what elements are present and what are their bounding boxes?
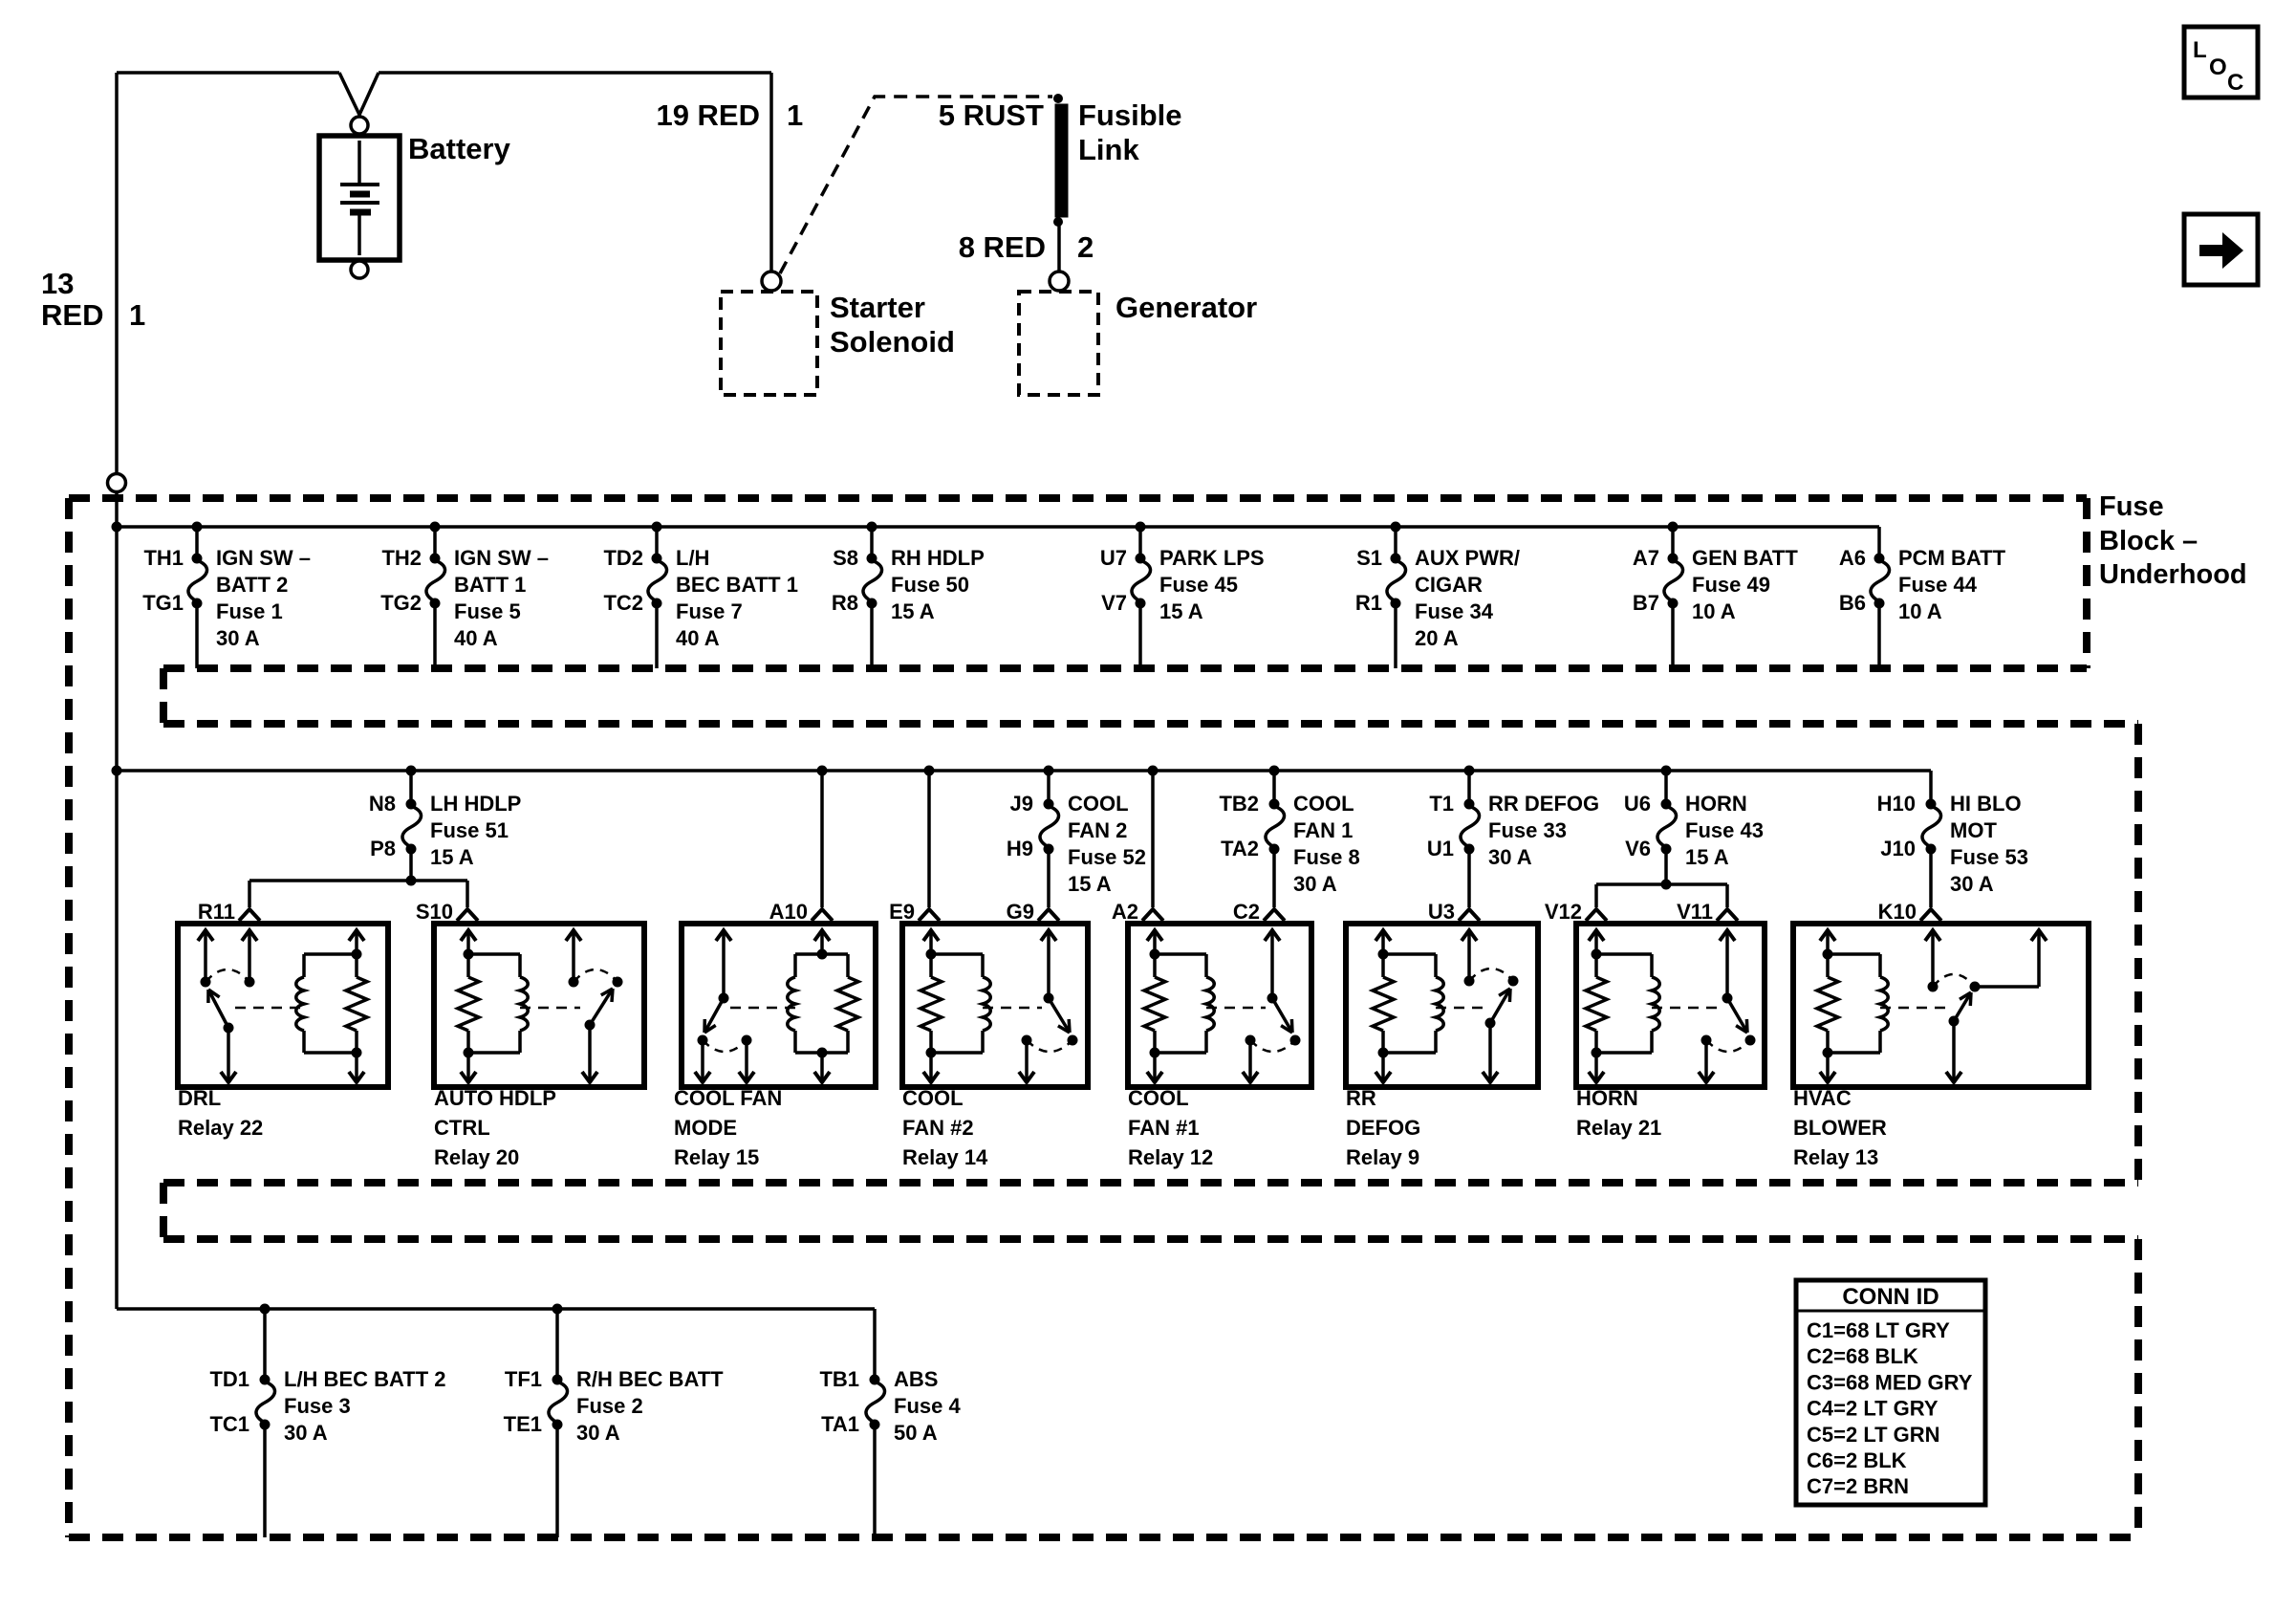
- svg-text:Fuse 33: Fuse 33: [1488, 818, 1567, 842]
- svg-text:S8: S8: [833, 546, 858, 570]
- svg-text:30 A: 30 A: [284, 1421, 328, 1445]
- svg-text:O: O: [2209, 54, 2227, 80]
- svg-text:13: 13: [41, 267, 74, 300]
- svg-text:BATT 2: BATT 2: [216, 573, 288, 597]
- svg-text:Fuse 49: Fuse 49: [1692, 573, 1770, 597]
- svg-text:Relay 14: Relay 14: [902, 1145, 988, 1169]
- svg-text:30 A: 30 A: [216, 626, 260, 650]
- svg-text:Relay 13: Relay 13: [1793, 1145, 1878, 1169]
- svg-text:TC1: TC1: [209, 1412, 249, 1436]
- svg-text:BATT 1: BATT 1: [454, 573, 526, 597]
- svg-text:R8: R8: [832, 591, 858, 615]
- svg-text:H10: H10: [1877, 792, 1916, 816]
- svg-text:R1: R1: [1355, 591, 1382, 615]
- svg-text:A10: A10: [769, 900, 808, 924]
- svg-text:BEC BATT 1: BEC BATT 1: [676, 573, 798, 597]
- svg-text:COOL: COOL: [1128, 1086, 1189, 1110]
- svg-text:40 A: 40 A: [676, 626, 720, 650]
- svg-text:V12: V12: [1545, 900, 1582, 924]
- svg-text:8 RED: 8 RED: [959, 230, 1046, 264]
- svg-text:Fuse 7: Fuse 7: [676, 599, 743, 623]
- svg-text:Relay 9: Relay 9: [1346, 1145, 1419, 1169]
- svg-text:V7: V7: [1101, 591, 1127, 615]
- svg-text:30 A: 30 A: [1488, 845, 1532, 869]
- svg-text:PARK LPS: PARK LPS: [1159, 546, 1265, 570]
- svg-text:1: 1: [129, 298, 145, 332]
- svg-text:15 A: 15 A: [1068, 872, 1112, 896]
- svg-text:J10: J10: [1880, 837, 1916, 860]
- svg-text:S1: S1: [1356, 546, 1382, 570]
- svg-text:C6=2 BLK: C6=2 BLK: [1807, 1448, 1907, 1472]
- svg-text:Fuse 8: Fuse 8: [1293, 845, 1360, 869]
- svg-text:Solenoid: Solenoid: [830, 325, 955, 359]
- svg-text:U3: U3: [1428, 900, 1455, 924]
- svg-text:Battery: Battery: [408, 132, 511, 165]
- svg-text:HORN: HORN: [1576, 1086, 1638, 1110]
- svg-text:40 A: 40 A: [454, 626, 498, 650]
- svg-text:Fuse 4: Fuse 4: [894, 1394, 961, 1418]
- svg-text:T1: T1: [1429, 792, 1454, 816]
- svg-text:Relay 15: Relay 15: [674, 1145, 759, 1169]
- svg-text:FAN 2: FAN 2: [1068, 818, 1127, 842]
- svg-text:ABS: ABS: [894, 1367, 938, 1391]
- svg-text:GEN BATT: GEN BATT: [1692, 546, 1798, 570]
- svg-text:A6: A6: [1839, 546, 1866, 570]
- svg-text:AUTO HDLP: AUTO HDLP: [434, 1086, 556, 1110]
- svg-text:C4=2 LT GRY: C4=2 LT GRY: [1807, 1397, 1939, 1421]
- svg-text:50 A: 50 A: [894, 1421, 938, 1445]
- svg-text:C2=68 BLK: C2=68 BLK: [1807, 1344, 1918, 1368]
- svg-text:Fuse 2: Fuse 2: [576, 1394, 643, 1418]
- svg-text:TG2: TG2: [380, 591, 422, 615]
- svg-text:Relay 21: Relay 21: [1576, 1116, 1661, 1140]
- svg-text:CIGAR: CIGAR: [1415, 573, 1483, 597]
- svg-text:C2: C2: [1233, 900, 1260, 924]
- svg-text:J9: J9: [1010, 792, 1033, 816]
- svg-text:FAN 1: FAN 1: [1293, 818, 1353, 842]
- svg-text:Fuse: Fuse: [2099, 491, 2164, 522]
- svg-text:TB2: TB2: [1219, 792, 1259, 816]
- svg-text:CTRL: CTRL: [434, 1116, 490, 1140]
- svg-text:30 A: 30 A: [1293, 872, 1337, 896]
- svg-text:V6: V6: [1625, 837, 1651, 860]
- svg-text:FAN #1: FAN #1: [1128, 1116, 1200, 1140]
- svg-text:C3=68 MED GRY: C3=68 MED GRY: [1807, 1370, 1973, 1394]
- svg-text:B6: B6: [1839, 591, 1866, 615]
- svg-text:B7: B7: [1633, 591, 1659, 615]
- svg-text:RH HDLP: RH HDLP: [891, 546, 985, 570]
- svg-text:Underhood: Underhood: [2099, 559, 2247, 590]
- svg-text:Relay 20: Relay 20: [434, 1145, 519, 1169]
- svg-text:A7: A7: [1633, 546, 1659, 570]
- svg-text:Fuse 44: Fuse 44: [1898, 573, 1978, 597]
- svg-text:C: C: [2227, 70, 2243, 96]
- svg-text:5 RUST: 5 RUST: [939, 98, 1044, 132]
- svg-text:BLOWER: BLOWER: [1793, 1116, 1887, 1140]
- svg-text:K10: K10: [1878, 900, 1917, 924]
- svg-text:TD2: TD2: [603, 546, 643, 570]
- svg-text:Generator: Generator: [1116, 291, 1257, 324]
- svg-text:TA2: TA2: [1221, 837, 1259, 860]
- svg-text:Fuse 53: Fuse 53: [1950, 845, 2028, 869]
- svg-text:2: 2: [1077, 230, 1094, 264]
- svg-text:RR: RR: [1346, 1086, 1376, 1110]
- svg-text:15 A: 15 A: [430, 845, 474, 869]
- svg-text:U7: U7: [1100, 546, 1127, 570]
- svg-text:Fusible: Fusible: [1078, 98, 1182, 132]
- svg-text:IGN SW –: IGN SW –: [216, 546, 311, 570]
- svg-text:TH2: TH2: [381, 546, 422, 570]
- svg-text:G9: G9: [1007, 900, 1034, 924]
- svg-text:COOL: COOL: [902, 1086, 964, 1110]
- svg-text:Link: Link: [1078, 133, 1139, 166]
- svg-text:15 A: 15 A: [891, 599, 935, 623]
- svg-text:Relay 22: Relay 22: [178, 1116, 263, 1140]
- svg-text:E9: E9: [889, 900, 915, 924]
- svg-text:H9: H9: [1007, 837, 1033, 860]
- svg-text:N8: N8: [369, 792, 396, 816]
- svg-text:30 A: 30 A: [576, 1421, 620, 1445]
- svg-text:Starter: Starter: [830, 291, 925, 324]
- svg-text:TD1: TD1: [209, 1367, 249, 1391]
- svg-text:R/H BEC BATT: R/H BEC BATT: [576, 1367, 724, 1391]
- svg-text:Fuse 34: Fuse 34: [1415, 599, 1494, 623]
- svg-text:L/H: L/H: [676, 546, 709, 570]
- svg-text:1: 1: [787, 98, 803, 132]
- svg-text:Block –: Block –: [2099, 526, 2198, 556]
- svg-text:TC2: TC2: [603, 591, 643, 615]
- svg-text:CONN ID: CONN ID: [1842, 1284, 1939, 1310]
- svg-text:HVAC: HVAC: [1793, 1086, 1852, 1110]
- svg-text:R11: R11: [198, 900, 235, 924]
- svg-text:V11: V11: [1677, 900, 1713, 924]
- svg-text:Relay 12: Relay 12: [1128, 1145, 1213, 1169]
- svg-text:10 A: 10 A: [1692, 599, 1736, 623]
- svg-text:TH1: TH1: [143, 546, 184, 570]
- svg-text:U1: U1: [1427, 837, 1454, 860]
- svg-text:PCM BATT: PCM BATT: [1898, 546, 2006, 570]
- svg-text:15 A: 15 A: [1685, 845, 1729, 869]
- svg-text:L/H BEC BATT 2: L/H BEC BATT 2: [284, 1367, 445, 1391]
- svg-text:MODE: MODE: [674, 1116, 737, 1140]
- svg-text:TE1: TE1: [504, 1412, 542, 1436]
- svg-text:TB1: TB1: [819, 1367, 859, 1391]
- svg-text:Fuse 3: Fuse 3: [284, 1394, 351, 1418]
- svg-text:LH HDLP: LH HDLP: [430, 792, 521, 816]
- svg-text:AUX PWR/: AUX PWR/: [1415, 546, 1520, 570]
- svg-text:20 A: 20 A: [1415, 626, 1459, 650]
- svg-text:COOL FAN: COOL FAN: [674, 1086, 782, 1110]
- svg-text:C5=2 LT GRN: C5=2 LT GRN: [1807, 1423, 1940, 1447]
- svg-text:Fuse 45: Fuse 45: [1159, 573, 1238, 597]
- svg-text:Fuse 1: Fuse 1: [216, 599, 283, 623]
- svg-text:U6: U6: [1624, 792, 1651, 816]
- svg-text:Fuse 5: Fuse 5: [454, 599, 521, 623]
- svg-text:L: L: [2193, 37, 2207, 63]
- svg-text:RR DEFOG: RR DEFOG: [1488, 792, 1599, 816]
- svg-text:FAN #2: FAN #2: [902, 1116, 974, 1140]
- svg-text:10 A: 10 A: [1898, 599, 1942, 623]
- svg-text:Fuse 50: Fuse 50: [891, 573, 969, 597]
- svg-text:P8: P8: [370, 837, 396, 860]
- svg-text:DEFOG: DEFOG: [1346, 1116, 1420, 1140]
- svg-text:TF1: TF1: [505, 1367, 542, 1391]
- svg-text:DRL: DRL: [178, 1086, 221, 1110]
- svg-text:COOL: COOL: [1068, 792, 1129, 816]
- svg-text:15 A: 15 A: [1159, 599, 1203, 623]
- svg-text:19 RED: 19 RED: [656, 98, 760, 132]
- svg-text:COOL: COOL: [1293, 792, 1354, 816]
- svg-text:HORN: HORN: [1685, 792, 1747, 816]
- svg-text:TA1: TA1: [821, 1412, 859, 1436]
- svg-text:Fuse 52: Fuse 52: [1068, 845, 1146, 869]
- svg-text:HI BLO: HI BLO: [1950, 792, 2022, 816]
- svg-text:30 A: 30 A: [1950, 872, 1994, 896]
- svg-text:Fuse 43: Fuse 43: [1685, 818, 1764, 842]
- svg-text:S10: S10: [416, 900, 453, 924]
- svg-text:C1=68 LT GRY: C1=68 LT GRY: [1807, 1318, 1950, 1342]
- svg-text:MOT: MOT: [1950, 818, 1997, 842]
- svg-text:RED: RED: [41, 298, 103, 332]
- svg-text:A2: A2: [1112, 900, 1138, 924]
- svg-text:C7=2 BRN: C7=2 BRN: [1807, 1474, 1909, 1498]
- svg-text:Fuse 51: Fuse 51: [430, 818, 509, 842]
- svg-text:TG1: TG1: [142, 591, 184, 615]
- svg-text:IGN SW –: IGN SW –: [454, 546, 549, 570]
